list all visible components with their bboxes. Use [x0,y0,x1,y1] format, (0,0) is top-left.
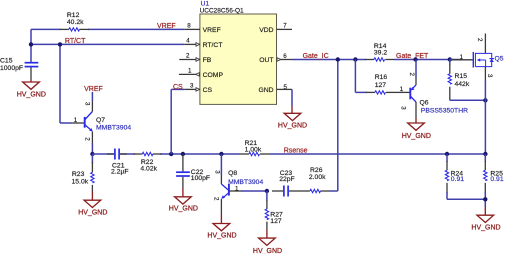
pin 3 CS [184,88,200,92]
junction R24 branch [445,152,449,156]
capacitor C22 [176,154,210,189]
pin 5 GND [277,88,293,90]
pin 8 VREF [184,28,200,30]
wire GND pin to ground [291,89,293,106]
svg-text:Q7: Q7 [96,117,105,124]
wire Q8 base to node B [241,190,267,192]
wire Q8 collector [220,154,222,175]
svg-text:3: 3 [399,106,406,110]
junction R16 branch [353,57,357,61]
svg-text:R23: R23 [72,171,85,178]
svg-text:Gate_IC: Gate_IC [303,53,329,60]
svg-text:4.02k: 4.02k [140,166,157,173]
svg-text:40.2k: 40.2k [67,19,84,26]
wire R26 up to OUT line [329,60,338,192]
svg-text:GND: GND [258,87,273,94]
resistor R22 [134,152,162,172]
svg-text:2.2µF: 2.2µF [111,169,129,176]
svg-text:2: 2 [476,38,483,42]
svg-text:C15: C15 [0,57,13,64]
junction R15 branch [448,57,452,61]
junction node at (60,44.4) [58,42,62,46]
svg-text:0.91: 0.91 [490,176,503,183]
svg-text:1: 1 [400,86,404,93]
svg-text:Q5: Q5 [495,56,504,63]
svg-text:RT/CT: RT/CT [65,38,86,45]
junction node B [265,189,269,193]
ground HV_GND (R23) [84,192,101,208]
svg-text:4: 4 [186,38,190,45]
wire Q5 source down to rail [484,80,486,154]
junction Q6 emitter branch [413,57,417,61]
transistor Q8 (mirrored NPN) [213,170,264,214]
wire R16 branch [355,60,367,93]
wire OUT / Gate_IC [292,59,462,61]
ground HV_GND (R25) [477,207,494,223]
resistor R14 [365,43,394,61]
svg-text:R15: R15 [455,73,468,80]
svg-text:1: 1 [188,68,192,75]
junction R26 branch [336,57,340,61]
junction Q7 emitter / rail [90,152,94,156]
svg-text:HV_GND: HV_GND [253,248,282,254]
svg-text:HV_GND: HV_GND [207,232,236,239]
svg-text:442k: 442k [455,81,470,88]
resistor R16 [366,74,399,94]
svg-text:HV_GND: HV_GND [471,225,500,232]
resistor R12 [60,12,89,31]
svg-text:0.91: 0.91 [451,176,464,183]
capacitor C21 [107,149,129,176]
svg-text:CS: CS [203,87,213,94]
svg-text:127: 127 [375,82,387,89]
junction CS branch [169,152,173,156]
capacitor C15 [0,57,38,79]
svg-text:1000pF: 1000pF [0,65,23,72]
ground HV_GND (Q8) [213,214,230,231]
svg-text:Gate_FET: Gate_FET [396,53,429,60]
wire Q7 collector [91,92,93,101]
svg-text:3: 3 [84,102,91,106]
transistor Q5 (P-MOSFET) [452,34,504,81]
svg-text:3: 3 [190,83,194,90]
svg-text:3: 3 [486,74,493,78]
wire Q7 emitter to rail [91,143,93,154]
wire RT/CT [31,44,184,123]
ground HV_GND (Q6) [408,118,425,130]
wire bottom R24-R25 [447,199,485,207]
pin 7 VDD [277,28,293,30]
svg-text:1: 1 [460,54,464,61]
svg-text:Q8: Q8 [228,170,237,177]
svg-text:FB: FB [203,57,212,64]
svg-text:Q6: Q6 [420,100,429,107]
svg-text:R26: R26 [310,167,323,174]
svg-text:COMP: COMP [203,72,224,79]
ground HV_GND (U1) [284,106,301,121]
wire Gate_FET to Q5 gate [450,59,453,61]
pin 2 FB [179,58,200,62]
svg-text:HV_GND: HV_GND [169,206,198,213]
svg-text:39.2: 39.2 [374,50,387,57]
svg-text:7: 7 [283,23,287,30]
svg-text:15.0k: 15.0k [72,179,89,186]
svg-text:Rsense: Rsense [284,147,308,154]
svg-text:127: 127 [270,218,282,225]
svg-text:VREF: VREF [84,86,103,93]
resistor R23 [72,154,95,192]
svg-text:2: 2 [83,137,90,141]
svg-text:5: 5 [284,84,288,91]
ground HV_GND (R27) [259,230,276,246]
svg-text:1: 1 [235,185,239,192]
svg-text:100pF: 100pF [191,175,210,182]
svg-text:VREF: VREF [203,27,221,34]
junction node at (31,44.4) [29,42,33,46]
svg-text:U1: U1 [201,1,210,8]
svg-text:HV_GND: HV_GND [278,123,307,130]
svg-text:HV_GND: HV_GND [78,210,107,217]
wire R15 bottom to Q5 source [450,99,486,101]
svg-text:2: 2 [408,73,415,77]
transistor Q7 [72,101,131,143]
svg-text:HV_GND: HV_GND [402,133,431,140]
junction C22 branch [181,152,185,156]
wire CS rail [92,153,485,155]
junction bottom [483,197,487,201]
svg-text:MMBT3904: MMBT3904 [228,179,263,186]
resistor R24 [445,154,464,199]
svg-text:6: 6 [283,53,287,60]
svg-text:VDD: VDD [259,27,273,34]
ground HV_GND (C22) [175,189,192,205]
svg-text:CS: CS [173,84,183,91]
junction R15/Q5 source [483,98,487,102]
transistor Q6 (PNP) [399,60,468,119]
junction R25 branch [483,152,487,156]
svg-text:VREF: VREF [157,23,176,30]
ground HV_GND (C15) [23,80,40,90]
resistor R27 [265,191,283,230]
svg-text:1: 1 [74,117,78,124]
svg-text:R12: R12 [67,12,80,19]
svg-text:OUT: OUT [259,57,273,64]
svg-text:UCC28C56-Q1: UCC28C56-Q1 [200,8,244,15]
resistor R26 [297,167,329,193]
svg-text:MMBT3904: MMBT3904 [96,124,131,131]
svg-text:1.00k: 1.00k [245,146,262,153]
svg-text:R16: R16 [375,74,388,81]
wire CS up to pin [171,89,184,154]
resistor R21 [240,140,270,156]
pin 6 OUT [277,58,293,62]
junction Q8 collector branch [219,152,223,156]
pin 1 COMP [179,73,200,77]
svg-text:RT/CT: RT/CT [203,42,223,49]
svg-text:2: 2 [186,53,190,60]
svg-text:3: 3 [214,170,221,174]
svg-text:2: 2 [213,197,220,201]
resistor R25 [484,154,504,199]
wire VREF top [31,29,184,62]
svg-text:PBSS5350THR: PBSS5350THR [421,108,468,115]
svg-text:22pF: 22pF [279,176,295,183]
svg-text:2.00k: 2.00k [309,174,326,181]
svg-text:HV_GND: HV_GND [17,92,46,99]
svg-text:8: 8 [187,23,191,30]
resistor R15 [448,60,470,101]
capacitor C23 [272,170,297,196]
pin 4 RT/CT [184,43,200,47]
IC U1 body [200,1,277,105]
